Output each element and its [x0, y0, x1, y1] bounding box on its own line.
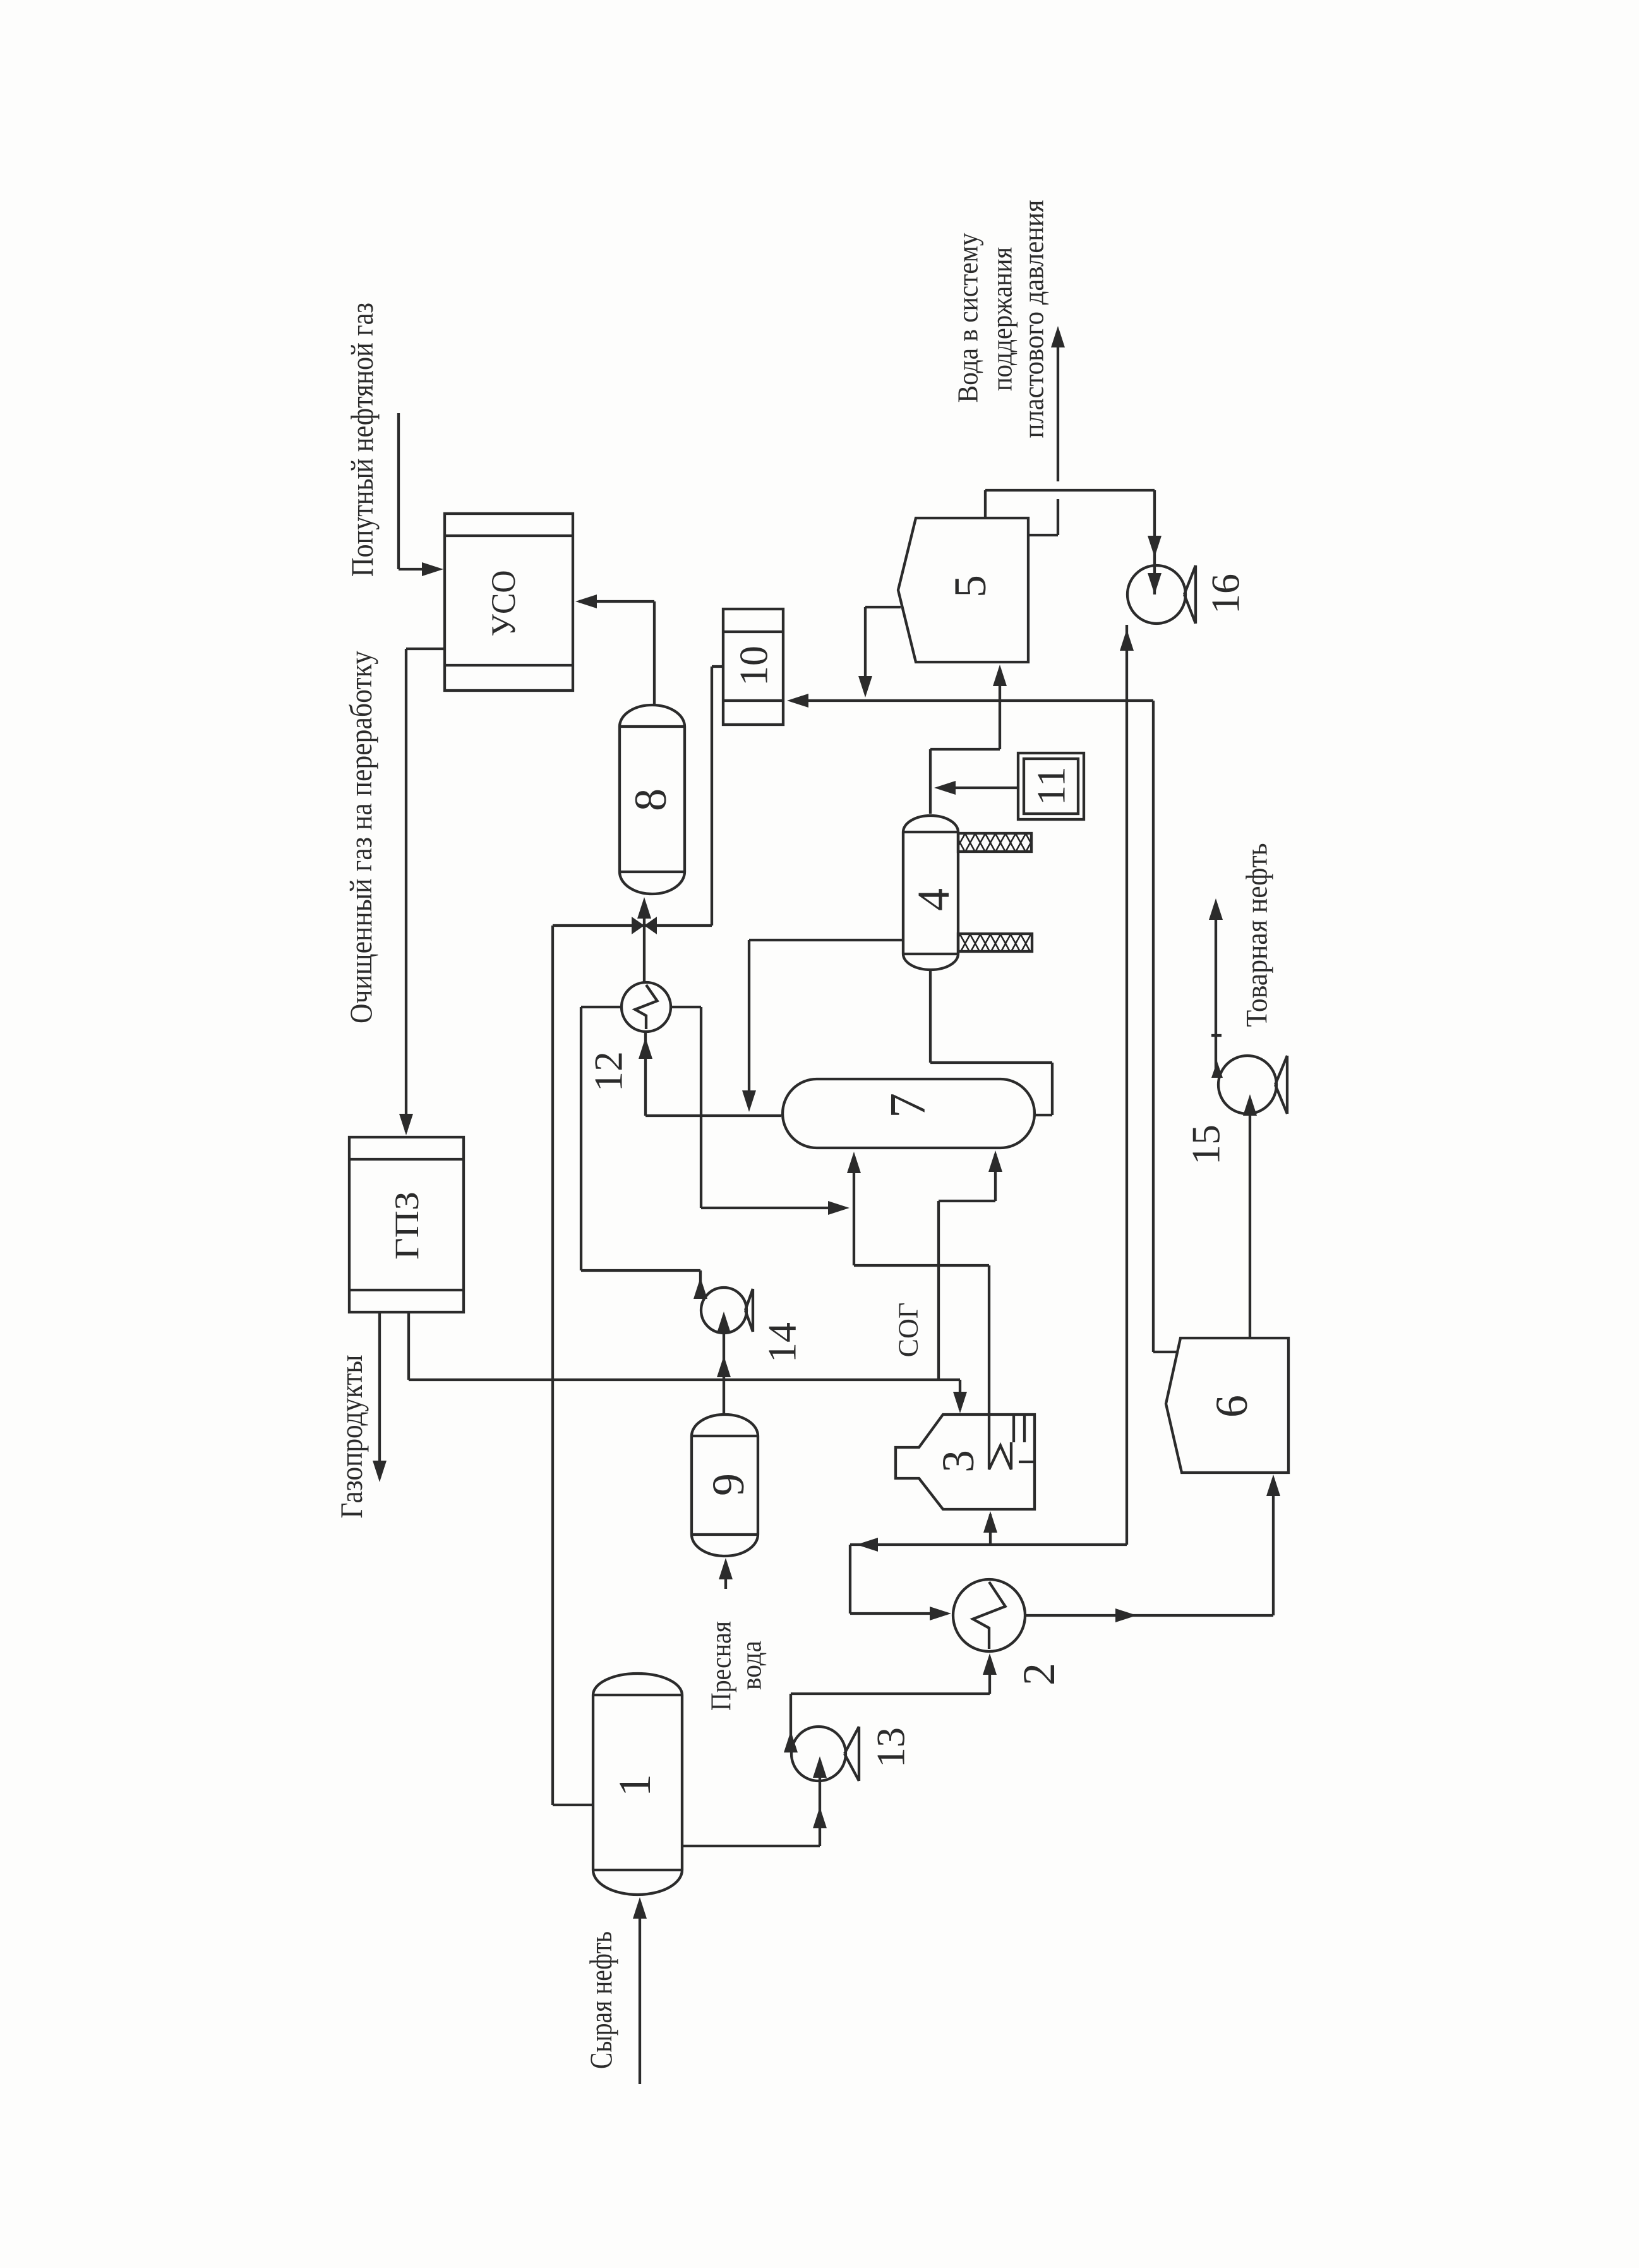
wire pump 16 suction and water drop: [1126, 625, 1128, 1545]
vessel 8 separator: [620, 705, 685, 894]
furnace 3 heater: [896, 1414, 1035, 1509]
block 10: [723, 609, 783, 725]
wire vessel 8 to USO: [653, 601, 656, 705]
wire associated gas inlet: [397, 413, 400, 569]
valve under vessel 8: [632, 917, 644, 934]
svg-text:4: 4: [908, 888, 959, 911]
svg-text:8: 8: [625, 788, 676, 811]
pump 14: [701, 1288, 747, 1333]
wire fresh water inlet: [724, 1562, 727, 1589]
vessel 7 drum: [783, 1079, 1035, 1148]
svg-text:пластового давления: пластового давления: [1018, 200, 1050, 438]
svg-text:1: 1: [609, 1774, 660, 1797]
wire SOG branch to vessel 7: [937, 1201, 940, 1380]
svg-text:вода: вода: [735, 1641, 767, 1690]
wire header to vessel 5 bottom: [999, 668, 1001, 701]
wire vessel 5 side to water outlet: [1029, 534, 1058, 536]
svg-text:Сырая нефть: Сырая нефть: [583, 1931, 618, 2069]
svg-text:11: 11: [1029, 766, 1074, 805]
vessel GPZ gas-processing plant: [349, 1137, 464, 1312]
heat exchanger 12: [621, 982, 671, 1032]
heat exchanger 2: [953, 1579, 1025, 1651]
vessel 9 fresh-water tank: [692, 1414, 758, 1556]
wire vessel 5 drain to header: [865, 606, 901, 608]
vessel 4 column: [903, 816, 958, 970]
wire junction to vessel 7 bottom: [853, 1156, 855, 1208]
wire fuel gas header: [407, 1312, 410, 1380]
wire pump 13 discharge to HX2: [789, 1694, 792, 1739]
svg-text:Товарная нефть: Товарная нефть: [1240, 843, 1274, 1027]
wire block 11 control line: [941, 787, 1018, 789]
svg-text:Попутный нефтяной газ: Попутный нефтяной газ: [344, 303, 380, 577]
wire branch to furnace 3 bottom: [989, 1514, 992, 1545]
svg-text:УСО: УСО: [484, 570, 522, 637]
pump 13: [791, 1727, 846, 1781]
svg-text:2: 2: [1014, 1663, 1064, 1686]
svg-text:15: 15: [1184, 1125, 1228, 1165]
block 11 controller: [1018, 753, 1084, 819]
svg-text:9: 9: [703, 1473, 753, 1496]
wire pump 15 discharge marketable oil: [1215, 903, 1217, 1071]
wire crude oil inlet: [639, 1902, 641, 2084]
wire block 10 drain via valve: [712, 665, 723, 668]
svg-text:5: 5: [945, 575, 995, 598]
wire vessel 9 to pump 14 suction: [723, 1315, 725, 1414]
wire vessel 4 side to vessel 7 line: [749, 939, 903, 941]
wire HX2 outlet to vessel 6: [1026, 1614, 1273, 1617]
vessel 1 first-stage separator: [593, 1674, 682, 1895]
hatched support lower of vessel 4: [958, 934, 1032, 951]
wire header to vessel 4 top: [999, 701, 1001, 749]
wire water header: [792, 699, 1153, 702]
svg-text:Газопродукты: Газопродукты: [333, 1355, 369, 1519]
wire gas products outlet: [378, 1312, 381, 1478]
svg-text:Пресная: Пресная: [705, 1621, 737, 1711]
wire valve to heat exchanger 12: [643, 926, 645, 983]
wire vessel 4 bottom to vessel 7 right end: [929, 970, 932, 1063]
wire condensate line to vessel 1: [551, 926, 554, 1805]
furnace 3 coil: [989, 1442, 1011, 1469]
vessel 6 settling tank: [1166, 1338, 1288, 1473]
wire header to vessel 6: [1152, 701, 1155, 1352]
svg-text:10: 10: [731, 646, 776, 686]
svg-text:3: 3: [933, 1450, 983, 1473]
vessel 5 settling tank: [898, 518, 1028, 662]
wire vessel 6 to pump 15: [1249, 1099, 1251, 1338]
svg-text:СОГ: СОГ: [893, 1303, 924, 1358]
svg-text:16: 16: [1203, 574, 1248, 614]
pump 15: [1218, 1056, 1276, 1114]
wire HX12 outlet loop: [671, 1006, 701, 1008]
svg-text:13: 13: [868, 1727, 913, 1768]
wire valve stub to vessel 8: [643, 902, 645, 926]
svg-text:Вода в систему: Вода в систему: [952, 233, 984, 403]
vessel USO gas-treatment unit: [445, 514, 573, 691]
svg-text:7: 7: [880, 1093, 936, 1118]
svg-text:12: 12: [586, 1051, 631, 1092]
svg-text:ГПЗ: ГПЗ: [388, 1191, 426, 1260]
svg-text:6: 6: [1206, 1395, 1257, 1418]
wire HX12 bottom to vessel 7: [644, 1032, 647, 1116]
wire USO to GPZ treated gas: [406, 648, 446, 650]
svg-text:Очищенный газ на переработку: Очищенный газ на переработку: [343, 651, 378, 1023]
wire junction to furnace coil: [853, 1208, 855, 1265]
wire pump 14 to HX12: [581, 1006, 621, 1008]
svg-text:поддержания: поддержания: [986, 247, 1018, 391]
wire pump 13 suction: [682, 1845, 820, 1847]
pump 16: [1127, 565, 1186, 624]
svg-text:14: 14: [760, 1322, 805, 1363]
wire vessel 5 top to pump 16: [984, 490, 987, 518]
hatched support upper of vessel 4: [958, 833, 1031, 852]
